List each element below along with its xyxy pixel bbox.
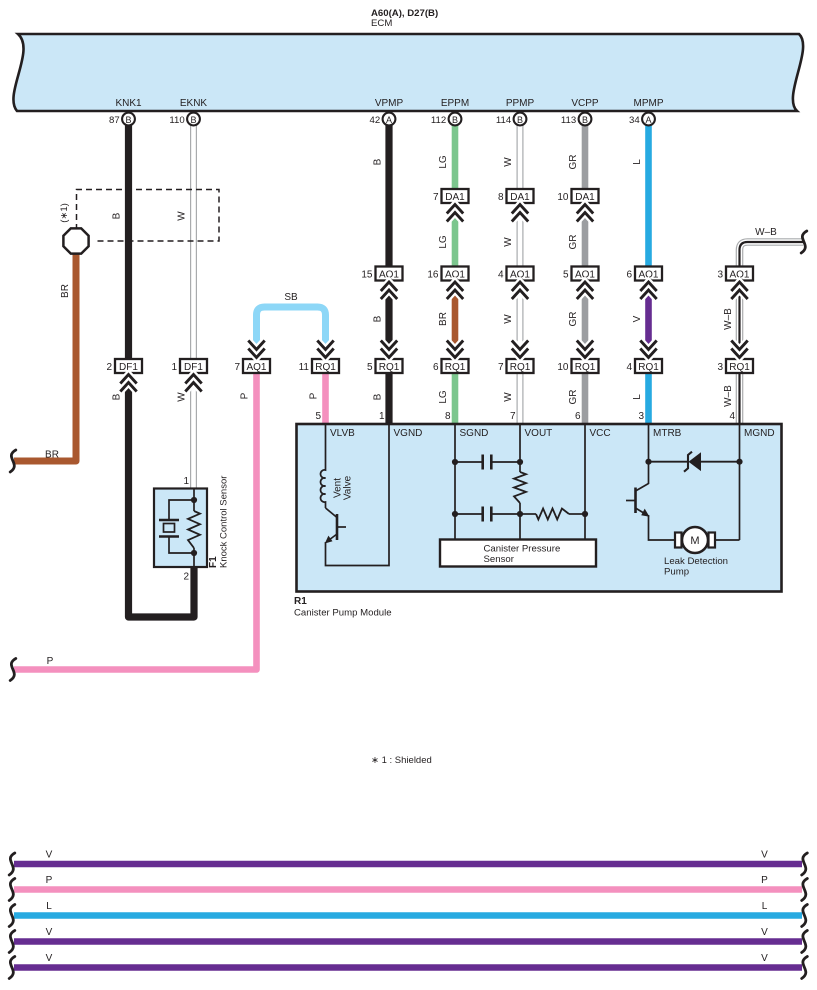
wire L from MPMP to 6 AQ1: [645, 119, 652, 267]
svg-text:P: P: [309, 392, 320, 399]
wire colour label L: [632, 159, 643, 165]
wire colour label P: [240, 392, 251, 399]
ECM pin 87 (B) KNK1: [109, 113, 135, 126]
wire colour label B: [373, 393, 384, 400]
svg-text:V: V: [632, 315, 643, 322]
svg-text:B: B: [112, 393, 123, 400]
svg-text:LG: LG: [438, 235, 449, 249]
svg-text:2: 2: [106, 362, 112, 373]
connector 7 DA1: [433, 189, 469, 203]
svg-text:1: 1: [183, 476, 189, 487]
module pin 1: [379, 411, 385, 422]
svg-text:112: 112: [431, 115, 446, 126]
junction dot SGND top: [452, 459, 458, 465]
resistor on VOUT line: [514, 472, 526, 503]
break symbols for bottom wire V: [9, 931, 807, 953]
svg-text:5: 5: [315, 411, 321, 422]
module pin 8: [445, 411, 451, 422]
connector 7 AQ1: [234, 359, 270, 373]
svg-text:LG: LG: [438, 155, 449, 169]
svg-text:6: 6: [433, 362, 439, 373]
knock sensor piezo element branch: [169, 500, 194, 520]
svg-text:VOUT: VOUT: [525, 428, 553, 439]
module R1 label: [294, 596, 392, 619]
ECM title label: [371, 8, 438, 29]
wire L from 4 RQ1 to module MTRB: [645, 373, 652, 424]
wire GR from 5 AQ1 to 10 RQ1: [582, 281, 589, 360]
wire colour label LG: [438, 155, 449, 169]
connector 15 AQ1: [361, 267, 402, 281]
svg-text:6: 6: [575, 411, 581, 422]
wire P from 11 RQ1 to module VLVB: [322, 373, 329, 424]
svg-text:1: 1: [171, 362, 177, 373]
wire colour label BR horizontal: [45, 450, 59, 461]
knock sensor F1 label: [208, 476, 230, 568]
svg-text:P: P: [240, 392, 251, 399]
ECM pin 114 (B) PPMP: [496, 113, 526, 126]
connector 4 RQ1: [626, 359, 662, 373]
break symbol on BR wire: [10, 450, 16, 472]
svg-text:V: V: [761, 953, 768, 964]
svg-text:Canister Pump Module: Canister Pump Module: [294, 608, 392, 619]
wire colour label W: [503, 314, 514, 324]
svg-text:11: 11: [299, 362, 310, 373]
svg-text:GR: GR: [568, 390, 579, 405]
wire B from 5 RQ1 to module VGND: [385, 373, 392, 424]
wire W from 7 RQ1 to module VOUT: [517, 373, 524, 424]
svg-text:RQ1: RQ1: [575, 362, 596, 373]
wire colour label V: [632, 315, 643, 322]
svg-text:RQ1: RQ1: [638, 362, 659, 373]
svg-text:VCC: VCC: [590, 428, 611, 439]
wire BR from shield octagon to left break: [14, 252, 76, 461]
wire SB from 7 AQ1 to 11 RQ1: [257, 307, 326, 348]
vent valve label: [333, 475, 354, 500]
ECM pin label VCPP: [571, 98, 599, 109]
wire colour label W: [503, 237, 514, 247]
wire B from 2 DF1 down and over to knock sensor pin 2: [129, 373, 195, 617]
connector 4 AQ1: [498, 267, 534, 281]
ECM connector band A60(A)/D27(B): [13, 34, 803, 111]
svg-text:PPMP: PPMP: [506, 98, 535, 109]
bottom wire V at y=864: [14, 850, 802, 865]
MGND internal line: [739, 424, 741, 540]
connector 2 DF1: [106, 359, 142, 373]
wire colour label P: [309, 392, 320, 399]
svg-text:SGND: SGND: [460, 428, 489, 439]
wire W-B from right break to 3 AQ1: [740, 242, 804, 267]
svg-text:∗ 1 : Shielded: ∗ 1 : Shielded: [371, 755, 432, 766]
wire GR from 10 DA1 to 5 AQ1: [582, 203, 589, 267]
svg-text:W: W: [503, 157, 514, 167]
bottom wire V at y=967.5: [14, 953, 802, 968]
wire colour label BR: [438, 312, 449, 326]
wire P from 7 AQ1 down to left break: [14, 373, 257, 670]
svg-text:W–B: W–B: [723, 385, 734, 407]
knock sensor resistor: [188, 511, 200, 548]
svg-text:V: V: [761, 850, 768, 861]
MTRB internal line: [648, 424, 650, 484]
svg-text:B: B: [373, 158, 384, 165]
wire LG from 7 DA1 to 16 AQ1: [452, 203, 459, 267]
wire B from KNK1 to 2 DF1: [125, 119, 132, 359]
SGND internal line: [454, 424, 456, 540]
connector 16 AQ1: [427, 267, 468, 281]
VCC internal line: [584, 424, 586, 540]
wire colour label SB: [284, 292, 298, 303]
svg-text:B: B: [373, 393, 384, 400]
svg-text:10: 10: [557, 362, 569, 373]
wire W from 1 DF1 to knock sensor pin 1: [190, 373, 197, 489]
vent valve transistor Q: [325, 508, 346, 544]
ECM pin label KNK1: [115, 98, 142, 109]
wire colour label B: [373, 158, 384, 165]
capacitor C-bottom between SGND and VOUT: [455, 507, 520, 522]
svg-text:ECM: ECM: [371, 18, 392, 29]
wire colour label GR: [568, 235, 579, 250]
knock control sensor F1 body: [154, 489, 207, 568]
svg-text:Sensor: Sensor: [484, 554, 515, 565]
module pin 6: [575, 411, 581, 422]
svg-text:M: M: [690, 535, 699, 547]
svg-text:P: P: [46, 875, 53, 886]
svg-text:RQ1: RQ1: [379, 362, 400, 373]
svg-text:2: 2: [183, 572, 189, 583]
svg-text:BR: BR: [438, 312, 449, 326]
svg-text:B: B: [112, 212, 123, 219]
wire colour label GR: [568, 155, 579, 170]
svg-text:15: 15: [361, 270, 373, 281]
svg-text:114: 114: [496, 115, 512, 126]
wire from transistor emitter to motor: [649, 515, 677, 540]
ECM pin label EPPM: [441, 98, 469, 109]
connector 1 DF1: [171, 359, 207, 373]
svg-text:4: 4: [729, 411, 735, 422]
connector 6 AQ1: [626, 267, 662, 281]
label (*1): [59, 203, 70, 223]
knock sensor internal line: [193, 489, 195, 512]
wire colour label B: [373, 315, 384, 322]
svg-text:VGND: VGND: [394, 428, 423, 439]
svg-text:SB: SB: [284, 292, 298, 303]
svg-text:R1: R1: [294, 596, 307, 607]
svg-text:B: B: [517, 115, 523, 125]
leak detection pump label: [664, 556, 728, 578]
svg-text:RQ1: RQ1: [315, 362, 336, 373]
svg-text:BR: BR: [60, 284, 71, 298]
wire colour label W-B: [723, 385, 734, 407]
ECM pin label MPMP: [634, 98, 664, 109]
svg-text:Valve: Valve: [343, 475, 354, 500]
module pin 3: [638, 411, 644, 422]
connector 8 DA1: [498, 189, 534, 203]
svg-text:5: 5: [367, 362, 373, 373]
svg-text:EKNK: EKNK: [180, 98, 208, 109]
connector 10 RQ1: [557, 359, 598, 373]
vent valve coil: [321, 424, 326, 508]
module terminal labels: [330, 428, 775, 439]
wire colour label W: [177, 211, 188, 221]
svg-text:V: V: [46, 953, 53, 964]
wire GR from 10 RQ1 to module VCC: [582, 373, 589, 424]
svg-text:F1: F1: [208, 556, 219, 568]
svg-text:W: W: [177, 392, 188, 402]
module pin 5: [315, 411, 321, 422]
svg-text:A: A: [386, 115, 392, 125]
VOUT internal line: [519, 424, 521, 472]
svg-text:KNK1: KNK1: [115, 98, 142, 109]
break symbols for bottom wire L: [9, 905, 807, 927]
svg-text:7: 7: [234, 362, 240, 373]
svg-text:MPMP: MPMP: [634, 98, 664, 109]
svg-text:3: 3: [717, 362, 723, 373]
wire from motor to MGND: [714, 539, 740, 541]
wire colour label W-B horizontal: [755, 227, 777, 238]
break symbol on P wire: [10, 659, 16, 681]
shield ground octagon: [63, 228, 88, 253]
wire W from EKNK to 1 DF1: [190, 119, 197, 359]
wire colour label LG: [438, 390, 449, 404]
knock sensor pin 1: [183, 476, 189, 487]
svg-text:RQ1: RQ1: [729, 362, 750, 373]
svg-text:LG: LG: [438, 390, 449, 404]
svg-text:B: B: [125, 115, 131, 125]
wire LG from EPPM to 7 DA1: [452, 119, 459, 189]
wire colour label B: [112, 212, 123, 219]
svg-text:W: W: [177, 211, 188, 221]
ECM pin 110 (B) EKNK: [169, 113, 199, 126]
junction dot SGND bottom: [452, 511, 458, 517]
svg-text:110: 110: [169, 115, 184, 126]
knock sensor pin 2: [183, 572, 189, 583]
svg-text:VPMP: VPMP: [375, 98, 404, 109]
bottom wire L at y=915.5: [14, 901, 802, 916]
zener diode between MTRB and MGND: [649, 452, 740, 472]
module pin 7: [510, 411, 516, 422]
svg-text:P: P: [761, 875, 768, 886]
ECM pin label PPMP: [506, 98, 535, 109]
svg-text:EPPM: EPPM: [441, 98, 469, 109]
svg-text:V: V: [761, 927, 768, 938]
svg-text:1: 1: [379, 411, 385, 422]
svg-text:4: 4: [498, 270, 504, 281]
svg-text:10: 10: [557, 192, 569, 203]
wire colour label GR: [568, 390, 579, 405]
wire colour label BR: [60, 284, 71, 298]
wire B from 15 AQ1 to 5 RQ1: [385, 281, 392, 360]
connector 3 RQ1: [717, 359, 753, 373]
svg-text:5: 5: [563, 270, 569, 281]
break symbols for bottom wire V: [9, 957, 807, 979]
svg-text:W–B: W–B: [755, 227, 777, 238]
break symbols for bottom wire V: [9, 853, 807, 875]
bottom wire V at y=941.5: [14, 927, 802, 942]
svg-text:AQ1: AQ1: [246, 362, 266, 373]
svg-text:16: 16: [427, 270, 439, 281]
svg-text:W–B: W–B: [723, 308, 734, 330]
connector 6 RQ1: [433, 359, 469, 373]
wire W from 4 AQ1 to 7 RQ1: [517, 281, 524, 360]
wire W from 8 DA1 to 4 AQ1: [517, 203, 524, 267]
connector 3 AQ1: [717, 267, 753, 281]
leak pump transistor Q: [626, 484, 650, 517]
wire W from PPMP to 8 DA1: [517, 119, 524, 189]
wire colour label W-B: [723, 308, 734, 330]
wire LG from 6 RQ1 to module SGND: [452, 373, 459, 424]
wire W-B from 3 AQ1 to 3 RQ1: [736, 281, 744, 360]
break symbols for bottom wire P: [9, 879, 807, 901]
wire W-B from 3 RQ1 to module MGND: [736, 373, 744, 424]
capacitor C-top between SGND and VOUT: [455, 455, 520, 470]
svg-text:Canister Pressure: Canister Pressure: [484, 544, 561, 555]
svg-text:B: B: [373, 315, 384, 322]
ECM pin 34 (A) MPMP: [629, 113, 655, 126]
connector 5 AQ1: [563, 267, 599, 281]
svg-text:7: 7: [498, 362, 504, 373]
svg-text:P: P: [47, 656, 54, 667]
svg-text:A: A: [645, 115, 651, 125]
wire colour label P horizontal: [47, 656, 54, 667]
svg-text:87: 87: [109, 115, 120, 126]
connector 7 RQ1: [498, 359, 534, 373]
svg-text:42: 42: [370, 115, 381, 126]
svg-text:3: 3: [638, 411, 644, 422]
svg-text:B: B: [452, 115, 458, 125]
module pin 4: [729, 411, 735, 422]
junction dot knock bottom: [191, 550, 197, 556]
svg-text:Knock Control Sensor: Knock Control Sensor: [219, 476, 230, 568]
ECM pin label EKNK: [180, 98, 208, 109]
footnote shielded: [371, 755, 432, 766]
junction dot MGND: [736, 459, 742, 465]
svg-text:W: W: [503, 392, 514, 402]
wire colour label W: [503, 392, 514, 402]
connector 10 DA1: [557, 189, 598, 203]
svg-text:L: L: [632, 159, 643, 165]
break symbol on W-B wire: [801, 231, 807, 253]
svg-text:V: V: [46, 850, 53, 861]
svg-text:6: 6: [626, 270, 632, 281]
wire from vent valve transistor to VGND: [326, 424, 390, 566]
canister pressure sensor box: [440, 540, 596, 567]
svg-text:L: L: [632, 394, 643, 400]
wire colour label W: [503, 157, 514, 167]
wire BR from 16 AQ1 to 6 RQ1: [452, 281, 459, 360]
svg-text:GR: GR: [568, 155, 579, 170]
shield dashed outline (*1): [77, 190, 220, 242]
svg-text:MGND: MGND: [744, 428, 775, 439]
canister pump module R1 body: [297, 424, 782, 592]
svg-text:Pump: Pump: [664, 567, 689, 578]
junction dot MTRB: [645, 459, 651, 465]
ECM pin 113 (B) VCPP: [561, 113, 591, 126]
svg-text:W: W: [503, 314, 514, 324]
svg-text:L: L: [762, 901, 768, 912]
resistor between VOUT and VCC: [520, 513, 536, 515]
junction dot VOUT bottom: [517, 511, 523, 517]
svg-text:34: 34: [629, 115, 640, 126]
ECM pin 112 (B) EPPM: [431, 113, 461, 126]
svg-text:RQ1: RQ1: [445, 362, 466, 373]
svg-text:7: 7: [510, 411, 516, 422]
svg-text:GR: GR: [568, 235, 579, 250]
ECM pin 42 (A) VPMP: [370, 113, 396, 126]
wire B from VPMP to 15 AQ1: [385, 119, 392, 267]
wire GR from VCPP to 10 DA1: [582, 119, 589, 189]
wire colour label L: [632, 394, 643, 400]
svg-text:(∗1): (∗1): [59, 203, 70, 223]
svg-text:8: 8: [498, 192, 504, 203]
svg-text:RQ1: RQ1: [510, 362, 531, 373]
leak detection pump motor M: [675, 527, 715, 553]
svg-text:V: V: [46, 927, 53, 938]
bottom wire P at y=889.5: [14, 875, 802, 890]
svg-text:7: 7: [433, 192, 439, 203]
svg-text:3: 3: [717, 270, 723, 281]
svg-text:W: W: [503, 237, 514, 247]
svg-text:Leak Detection: Leak Detection: [664, 556, 728, 567]
svg-text:GR: GR: [568, 312, 579, 327]
connector 5 RQ1: [367, 359, 403, 373]
svg-text:B: B: [582, 115, 588, 125]
ECM pin label VPMP: [375, 98, 404, 109]
junction dot knock top: [191, 497, 197, 503]
junction dot VCC: [582, 511, 588, 517]
wire colour label B: [112, 393, 123, 400]
svg-text:4: 4: [626, 362, 632, 373]
svg-text:VCPP: VCPP: [571, 98, 599, 109]
wire colour label LG: [438, 235, 449, 249]
wire V from 6 AQ1 to 4 RQ1: [645, 281, 652, 360]
svg-text:B: B: [190, 115, 196, 125]
svg-text:BR: BR: [45, 450, 59, 461]
svg-text:113: 113: [561, 115, 576, 126]
svg-text:VLVB: VLVB: [330, 428, 355, 439]
svg-text:MTRB: MTRB: [653, 428, 682, 439]
junction dot VOUT top: [517, 459, 523, 465]
svg-text:L: L: [46, 901, 52, 912]
svg-text:8: 8: [445, 411, 451, 422]
wire colour label W: [177, 392, 188, 402]
wire colour label GR: [568, 312, 579, 327]
connector 11 RQ1: [299, 359, 339, 373]
